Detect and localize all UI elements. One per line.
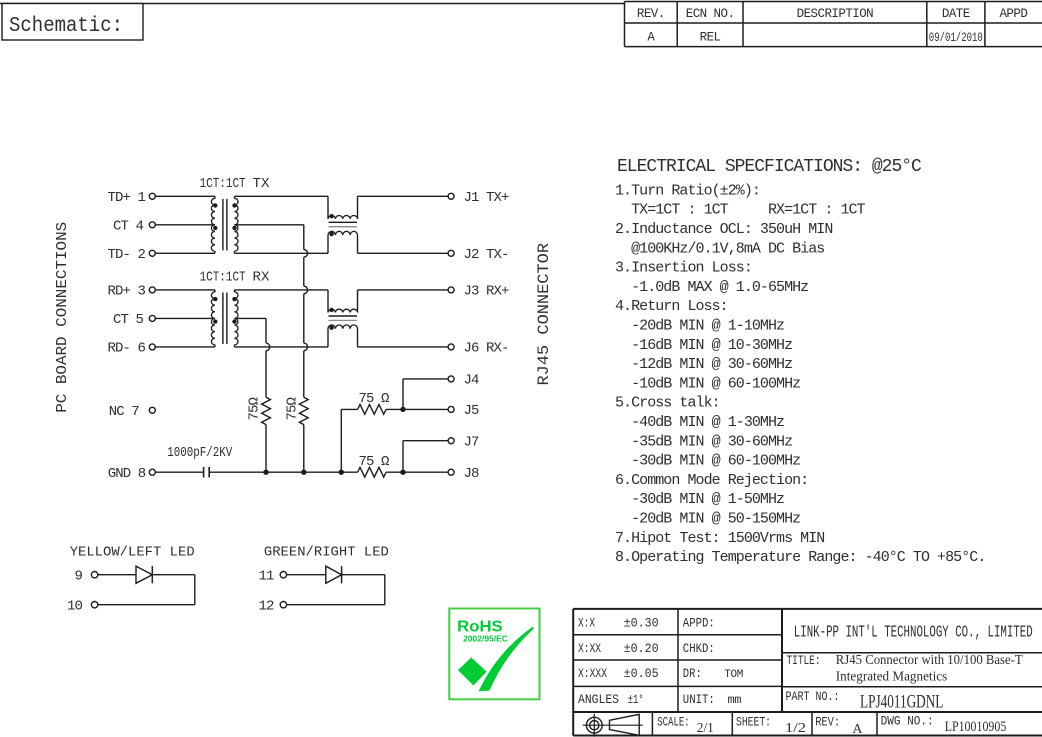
svg-text:J8: J8 [464,466,480,482]
svg-text:YELLOW/LEFT LED: YELLOW/LEFT LED [70,545,195,561]
svg-text:-12dB MIN @ 30-60MHz: -12dB MIN @ 30-60MHz [615,356,792,373]
svg-text:RD- 6: RD- 6 [108,341,146,357]
svg-text:-1.0dB MAX @ 1.0-65MHz: -1.0dB MAX @ 1.0-65MHz [615,279,808,296]
svg-text:-30dB MIN @ 1-50MHz: -30dB MIN @ 1-50MHz [615,491,784,508]
svg-text:-10dB MIN @ 60-100MHz: -10dB MIN @ 60-100MHz [615,375,800,392]
svg-text:1.Turn Ratio(±2%):: 1.Turn Ratio(±2%): [615,182,760,199]
svg-text:±0.20: ±0.20 [624,641,659,656]
svg-text:REV.: REV. [637,7,665,21]
svg-text:LPJ4011GDNL: LPJ4011GDNL [860,692,943,713]
svg-text:ELECTRICAL SPECFICATIONS: @25°: ELECTRICAL SPECFICATIONS: @25°C [617,157,922,177]
svg-text:TOM: TOM [724,669,743,681]
svg-text:GND 8: GND 8 [108,466,146,482]
svg-text:8.Operating Temperature Range:: 8.Operating Temperature Range: -40°C TO … [615,549,985,566]
svg-text:SHEET:: SHEET: [736,715,771,730]
svg-text:REV:: REV: [815,715,840,730]
svg-text:SCALE:: SCALE: [657,715,690,730]
svg-text:X:X: X:X [578,616,595,631]
svg-text:-20dB MIN @ 1-10MHz: -20dB MIN @ 1-10MHz [615,318,784,335]
svg-text:11: 11 [258,568,274,584]
svg-text:NC 7: NC 7 [109,404,140,420]
svg-text:J3 RX+: J3 RX+ [464,284,510,300]
svg-text:DR:: DR: [683,666,702,681]
svg-text:J1 TX+: J1 TX+ [464,190,510,206]
svg-text:PART NO.:: PART NO.: [786,689,840,704]
svg-text:APPD: APPD [999,7,1027,21]
svg-text:2.Inductance OCL: 350uH MIN: 2.Inductance OCL: 350uH MIN [615,221,832,238]
svg-text:2/1: 2/1 [697,721,714,736]
svg-text:3.Insertion Loss:: 3.Insertion Loss: [615,260,752,277]
svg-text:-40dB MIN @ 1-30MHz: -40dB MIN @ 1-30MHz [615,414,784,431]
svg-text:-30dB MIN @ 60-100MHz: -30dB MIN @ 60-100MHz [615,453,800,470]
svg-text:4.Return Loss:: 4.Return Loss: [615,298,728,315]
svg-text:CT 5: CT 5 [113,312,144,328]
svg-text:X:XX: X:XX [578,641,601,656]
svg-text:LP10010905: LP10010905 [945,719,1007,735]
svg-text:±1°: ±1° [628,692,644,707]
svg-text:75 Ω: 75 Ω [359,391,390,407]
svg-text:75 Ω: 75 Ω [359,454,390,470]
svg-text:J4: J4 [464,373,480,389]
svg-text:10: 10 [67,598,83,614]
svg-text:A: A [647,30,655,44]
svg-text:J5: J5 [464,403,480,419]
svg-text:7.Hipot Test: 1500Vrms MIN: 7.Hipot Test: 1500Vrms MIN [615,530,824,547]
svg-text:1000pF/2KV: 1000pF/2KV [167,446,233,461]
svg-text:RX: RX [253,270,271,286]
svg-text:TITLE:: TITLE: [787,653,821,668]
svg-text:-16dB MIN @ 10-30MHz: -16dB MIN @ 10-30MHz [615,337,792,354]
svg-text:CT 4: CT 4 [113,218,144,234]
svg-text:DWG NO.:: DWG NO.: [881,714,934,729]
svg-text:APPD:: APPD: [683,616,715,631]
svg-text:-35dB MIN @ 30-60MHz: -35dB MIN @ 30-60MHz [615,433,792,450]
svg-text:-20dB MIN @ 50-150MHz: -20dB MIN @ 50-150MHz [615,511,800,528]
svg-text:TD- 2: TD- 2 [108,247,146,263]
svg-text:UNIT:: UNIT: [683,692,715,707]
svg-text:mm: mm [728,693,742,707]
svg-text:@100KHz/0.1V,8mA DC Bias: @100KHz/0.1V,8mA DC Bias [615,240,824,257]
svg-text:J6 RX-: J6 RX- [464,341,509,357]
svg-text:J7: J7 [464,434,480,450]
svg-text:Integrated Magnetics: Integrated Magnetics [836,670,947,685]
svg-text:1CT:1CT: 1CT:1CT [200,270,246,286]
svg-text:75Ω: 75Ω [247,397,263,420]
svg-text:1/2: 1/2 [785,721,806,736]
svg-text:2002/95/EC: 2002/95/EC [463,633,508,643]
svg-text:GREEN/RIGHT LED: GREEN/RIGHT LED [264,545,389,561]
svg-text:DESCRIPTION: DESCRIPTION [797,7,874,21]
svg-text:12: 12 [258,598,274,614]
svg-text:DATE: DATE [942,7,970,21]
svg-text:J2 TX-: J2 TX- [464,247,509,263]
svg-text:RJ45 CONNECTOR: RJ45 CONNECTOR [535,243,553,386]
svg-text:A: A [852,722,863,737]
svg-text:Schematic:: Schematic: [9,15,123,38]
svg-text:09/01/2010: 09/01/2010 [929,31,983,45]
svg-text:±0.05: ±0.05 [624,666,659,681]
svg-text:LINK-PP INT'L TECHNOLOGY CO.,: LINK-PP INT'L TECHNOLOGY CO., LIMITED [794,624,1033,643]
svg-text:ECN NO.: ECN NO. [686,7,735,21]
svg-text:ANGLES: ANGLES [578,692,619,707]
svg-text:±0.30: ±0.30 [624,616,659,631]
svg-text:TX=1CT : 1CT RX=1CT : 1CT: TX=1CT : 1CT RX=1CT : 1CT [615,202,866,219]
svg-text:CHKD:: CHKD: [683,641,715,656]
svg-text:5.Cross talk:: 5.Cross talk: [615,395,720,412]
svg-text:PC BOARD CONNECTIONS: PC BOARD CONNECTIONS [54,222,71,413]
svg-text:6.Common Mode Rejection:: 6.Common Mode Rejection: [615,472,808,489]
svg-text:1CT:1CT: 1CT:1CT [200,176,246,192]
svg-text:TD+ 1: TD+ 1 [108,190,146,206]
svg-text:TX: TX [253,176,271,192]
svg-text:75Ω: 75Ω [285,397,301,420]
svg-text:9: 9 [74,568,82,584]
svg-text:X:XXX: X:XXX [578,666,607,681]
svg-text:RD+ 3: RD+ 3 [108,284,146,300]
svg-text:RJ45 Connector with 10/100 Bas: RJ45 Connector with 10/100 Base-T [836,653,1023,668]
svg-text:REL: REL [700,30,721,44]
